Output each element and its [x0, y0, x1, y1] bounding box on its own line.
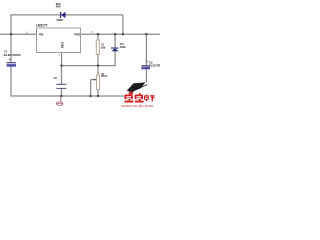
- wire D3 bottom lead: [114, 51, 116, 66]
- resistor R1: [96, 40, 99, 55]
- logo text dianzi (red): [144, 95, 155, 102]
- node D3 top junction: [114, 33, 116, 35]
- ground symbol: [56, 96, 63, 105]
- svg-text:4003: 4003: [120, 45, 126, 49]
- logo beetle: [127, 82, 148, 94]
- wire R1 top lead: [97, 34, 99, 40]
- svg-text:IN4007: IN4007: [57, 18, 64, 22]
- wire C3 lower lead: [61, 89, 63, 96]
- node R1 top junction: [97, 33, 99, 35]
- svg-text:C3: C3: [54, 76, 58, 80]
- wire pot wiper drop: [90, 80, 92, 96]
- node ground junction: [60, 95, 62, 97]
- node top-rail drop junction: [122, 33, 124, 35]
- node C2 top junction: [145, 33, 147, 35]
- wire Vin input from left edge: [0, 33, 37, 35]
- potentiometer wiper arrow: [91, 79, 97, 81]
- svg-text:4007: 4007: [56, 4, 61, 8]
- potentiometer R2: [97, 75, 100, 90]
- wire left branch up to top rail: [10, 14, 12, 34]
- node pot-rail junction: [97, 95, 99, 97]
- svg-text:www.cc-dz.com: www.cc-dz.com: [122, 104, 154, 108]
- svg-text:POT2: POT2: [101, 74, 107, 78]
- wire R1 bottom lead to ADJ node: [97, 55, 99, 66]
- svg-text:Vin: Vin: [39, 32, 44, 36]
- node wiper-rail junction: [89, 95, 91, 97]
- diode D2 top: [60, 12, 66, 18]
- capacitor C1 electrolytic: [7, 62, 17, 66]
- wire C2 bottom lead: [145, 69, 147, 96]
- wire ADJ horizontal: [62, 65, 116, 67]
- wire pot bottom lead: [97, 90, 99, 97]
- wire Vout to right edge: [81, 33, 161, 35]
- logo text chongchong (red): [124, 93, 143, 102]
- wire D3 top lead: [114, 34, 116, 47]
- wire bottom rail: [11, 95, 147, 97]
- svg-text:LM317T: LM317T: [36, 24, 48, 28]
- capacitor C3: [56, 84, 66, 89]
- svg-text:ELECTRO2: ELECTRO2: [149, 63, 160, 67]
- wire C3 upper lead: [61, 66, 63, 84]
- node ADJ-R junction: [97, 64, 99, 66]
- svg-text:+: +: [9, 58, 11, 62]
- wire top rail: [11, 14, 123, 16]
- wire C1 branch lower: [10, 67, 12, 97]
- watermark white backing: [124, 82, 157, 107]
- wire ADJ pin lead: [61, 53, 63, 66]
- diode D3 near ADJ: [111, 48, 119, 52]
- wire pot top lead: [97, 66, 99, 75]
- node ADJ-C3 junction: [60, 64, 62, 66]
- svg-text:..--: ..--: [8, 6, 11, 10]
- svg-text:ADJ: ADJ: [60, 42, 64, 49]
- IC U1 LM317T regulator box: [37, 28, 81, 53]
- svg-text:ELECTRO1: ELECTRO1: [4, 53, 21, 57]
- wire C2 top lead: [145, 34, 147, 65]
- svg-text:220: 220: [101, 45, 106, 49]
- wire right drop from top rail to Vout wire: [122, 15, 124, 34]
- svg-text:+Vout: +Vout: [74, 32, 81, 36]
- node Vin junction: [10, 33, 12, 35]
- capacitor C2 electrolytic: [141, 65, 150, 69]
- wire C1 branch upper: [10, 34, 12, 63]
